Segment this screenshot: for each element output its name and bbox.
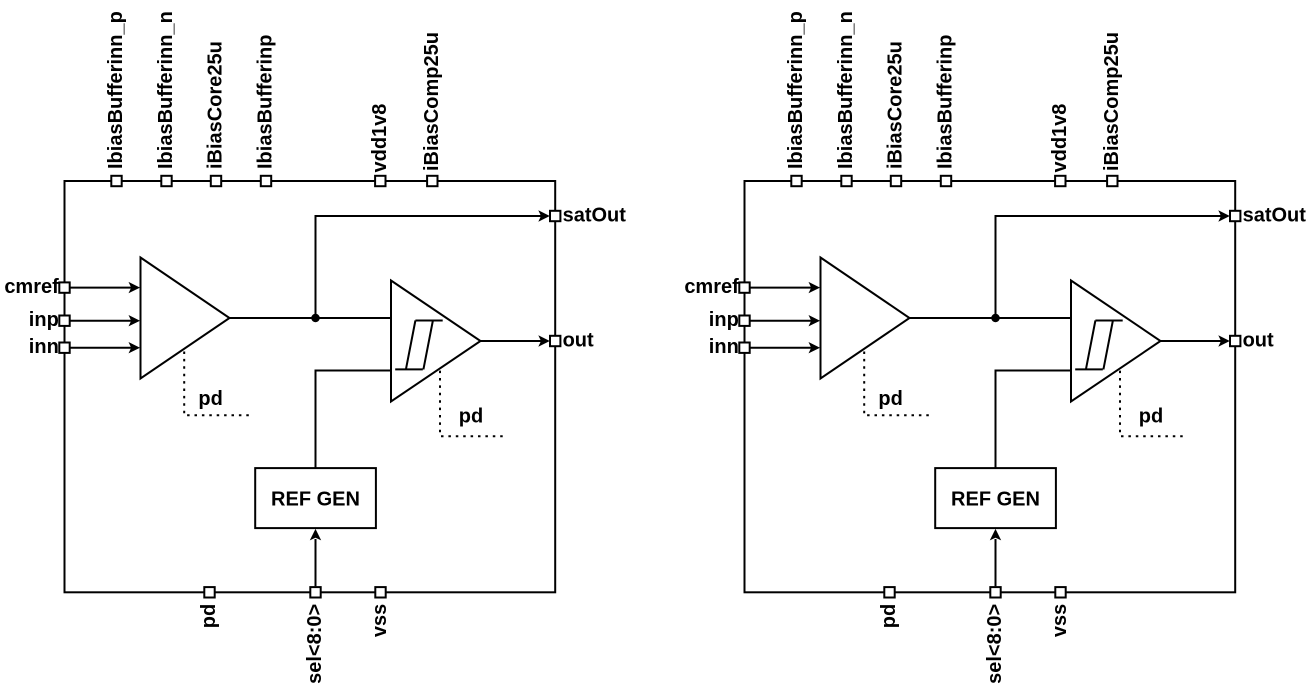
wire N1 to satOut <box>316 216 542 318</box>
wire U2 output to out <box>1161 340 1222 342</box>
svg-text:inn: inn <box>709 336 739 358</box>
ref gen block G1 <box>255 468 376 528</box>
pin iBiasCore25u (B1) <box>211 176 221 186</box>
pin IbiasBufferinn_n (B2) <box>841 176 851 186</box>
svg-text:IbiasBufferinp: IbiasBufferinp <box>255 35 277 169</box>
svg-text:IbiasBufferinp: IbiasBufferinp <box>935 35 957 169</box>
node junction N2 <box>991 314 1000 323</box>
pin out (B1) <box>550 336 560 346</box>
svg-text:IbiasBufferinn_n: IbiasBufferinn_n <box>155 11 177 169</box>
pin out (B2) <box>1230 336 1240 346</box>
wire A1 output to comparator U1 <box>230 317 392 319</box>
svg-text:iBiasComp25u: iBiasComp25u <box>421 32 443 171</box>
block boundary B1 <box>65 181 556 592</box>
wire A2 output to comparator U2 <box>910 317 1072 319</box>
svg-text:pd: pd <box>878 604 900 628</box>
pin pd (B1) <box>204 587 214 597</box>
svg-text:vss: vss <box>369 604 391 637</box>
dotted pd net (A2) <box>864 352 930 416</box>
svg-text:REF GEN: REF GEN <box>271 488 360 510</box>
svg-text:iBiasCore25u: iBiasCore25u <box>885 41 907 169</box>
pin pd (B2) <box>884 587 894 597</box>
svg-text:pd: pd <box>878 388 902 410</box>
pin iBiasComp25u (B2) <box>1107 176 1117 186</box>
svg-text:satOut: satOut <box>1243 204 1306 226</box>
svg-text:IbiasBufferinn_n: IbiasBufferinn_n <box>835 11 857 169</box>
svg-text:pd: pd <box>198 604 220 628</box>
svg-text:iBiasComp25u: iBiasComp25u <box>1101 32 1123 171</box>
wire inn to amplifier A2 <box>750 347 812 349</box>
pin inp (B1) <box>59 316 69 326</box>
svg-text:inp: inp <box>29 309 59 331</box>
svg-text:out: out <box>563 329 594 351</box>
wire sel&lt;8:0&gt; to G2 <box>995 539 997 586</box>
wire cmref to amplifier A1 <box>70 287 132 289</box>
hysteresis symbol (U1) <box>395 321 443 370</box>
wire cmref to amplifier A2 <box>750 287 812 289</box>
svg-text:IbiasBufferinn_p: IbiasBufferinn_p <box>785 11 807 169</box>
svg-text:inn: inn <box>29 336 59 358</box>
wire U1 output to out <box>481 340 542 342</box>
pin inp (B2) <box>739 316 749 326</box>
pin IbiasBufferinp (B2) <box>941 176 951 186</box>
pin vdd1v8 (B1) <box>375 176 385 186</box>
block boundary B2 <box>745 181 1236 592</box>
svg-text:vdd1v8: vdd1v8 <box>369 104 391 173</box>
svg-text:pd: pd <box>198 388 222 410</box>
svg-text:IbiasBufferinn_p: IbiasBufferinn_p <box>105 11 127 169</box>
svg-text:cmref: cmref <box>684 276 739 298</box>
svg-text:REF GEN: REF GEN <box>951 488 1040 510</box>
svg-text:vdd1v8: vdd1v8 <box>1049 104 1071 173</box>
pin sel&lt;8:0&gt; (B1) <box>310 587 320 597</box>
svg-text:pd: pd <box>459 406 483 428</box>
pin inn (B1) <box>59 343 69 353</box>
wire G2 to U2 lower input <box>996 371 1072 469</box>
pin satOut (B2) <box>1230 211 1240 221</box>
svg-text:iBiasCore25u: iBiasCore25u <box>205 41 227 169</box>
svg-text:out: out <box>1243 329 1274 351</box>
pin satOut (B1) <box>550 211 560 221</box>
svg-text:inp: inp <box>709 309 739 331</box>
pin cmref (B1) <box>59 282 69 292</box>
comparator U2 <box>1071 281 1161 402</box>
node junction N1 <box>311 314 320 323</box>
svg-text:pd: pd <box>1139 406 1163 428</box>
wire inp to amplifier A1 <box>70 320 132 322</box>
wire inp to amplifier A2 <box>750 320 812 322</box>
wire inn to amplifier A1 <box>70 347 132 349</box>
svg-text:satOut: satOut <box>563 204 627 226</box>
pin vss (B1) <box>375 587 385 597</box>
dotted pd net (A1) <box>184 352 250 416</box>
pin iBiasCore25u (B2) <box>891 176 901 186</box>
pin sel&lt;8:0&gt; (B2) <box>990 587 1000 597</box>
pin cmref (B2) <box>739 282 749 292</box>
dotted pd net (U1) <box>440 371 508 437</box>
dotted pd net (U2) <box>1120 371 1188 437</box>
op-amp amplifier A1 <box>141 258 230 379</box>
pin vdd1v8 (B2) <box>1055 176 1065 186</box>
pin iBiasComp25u (B1) <box>427 176 437 186</box>
pin IbiasBufferinn_p (B1) <box>111 176 121 186</box>
svg-text:sel<8:0>: sel<8:0> <box>984 604 1006 684</box>
op-amp amplifier A2 <box>821 258 910 379</box>
svg-text:vss: vss <box>1049 604 1071 637</box>
ref gen block G2 <box>935 468 1056 528</box>
pin inn (B2) <box>739 343 749 353</box>
pin IbiasBufferinp (B1) <box>261 176 271 186</box>
comparator U1 <box>391 281 481 402</box>
pin IbiasBufferinn_n (B1) <box>161 176 171 186</box>
svg-text:sel<8:0>: sel<8:0> <box>304 604 326 684</box>
hysteresis symbol (U2) <box>1075 321 1123 370</box>
wire G1 to U1 lower input <box>316 371 392 469</box>
wire N2 to satOut <box>996 216 1222 318</box>
wire sel&lt;8:0&gt; to G1 <box>315 539 317 586</box>
svg-text:cmref: cmref <box>4 276 59 298</box>
pin IbiasBufferinn_p (B2) <box>791 176 801 186</box>
pin vss (B2) <box>1055 587 1065 597</box>
